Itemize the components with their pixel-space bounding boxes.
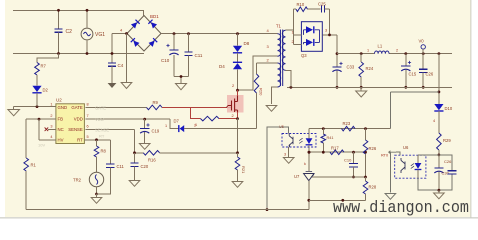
wire U5 collector to bottom rail [267, 127, 289, 210]
wire R17 row [309, 151, 366, 153]
svg-text:VDD: VDD [95, 117, 104, 122]
wire primary bottom rail [26, 209, 309, 211]
resistor R24 [360, 54, 362, 62]
svg-text:VG1: VG1 [95, 32, 105, 38]
resistor R10 snubber [294, 8, 297, 10]
optocoupler U6 LED [415, 163, 422, 169]
svg-text:R23: R23 [343, 121, 351, 126]
wire U5 LED to R23 row [308, 129, 310, 134]
svg-text:VDD: VDD [74, 117, 83, 122]
capacitor C20 [134, 153, 136, 163]
svg-text:U2: U2 [56, 98, 62, 103]
capacitor C25 snubber [322, 6, 325, 13]
wire sense drop to divider [389, 92, 391, 129]
svg-text:U7: U7 [294, 174, 300, 179]
MOSFET Q2 highlight [227, 95, 244, 113]
wire bridge left node down to ground [126, 34, 128, 83]
ground under U6 left [385, 194, 396, 200]
svg-text:SENSE: SENSE [95, 127, 109, 132]
capacitor C11 bulk [188, 34, 190, 52]
wire output row after L1 [389, 53, 452, 55]
svg-text:C15: C15 [409, 72, 417, 77]
resistor gate pulldown [201, 116, 220, 121]
svg-text:5: 5 [87, 135, 89, 139]
resistor R41 [321, 134, 326, 143]
capacitor C15 [405, 54, 407, 66]
capacitor C10 comp [353, 152, 355, 163]
resistor R17 [330, 150, 344, 155]
wire current sense row [135, 152, 144, 154]
svg-text:GATE: GATE [95, 105, 106, 110]
svg-text:Q3: Q3 [301, 53, 307, 58]
svg-text:RT0: RT0 [381, 154, 388, 158]
svg-text:C33: C33 [347, 65, 355, 70]
wire rectifier output [322, 34, 337, 36]
wire RT pin row [84, 139, 110, 141]
wire output row [337, 53, 375, 55]
wire GND pin row [14, 106, 56, 108]
wire snubber left to secondary top [293, 9, 295, 44]
svg-text:C11: C11 [195, 53, 203, 58]
capacitor C10 bulk [173, 34, 175, 50]
wire top AC rail [13, 10, 144, 15]
resistor R21 [235, 157, 240, 170]
svg-text:C10: C10 [344, 158, 352, 163]
optocoupler U5 LED [306, 138, 313, 144]
svg-text:R20: R20 [259, 88, 264, 96]
svg-text:D8: D8 [244, 41, 250, 46]
svg-text:C26: C26 [444, 159, 452, 164]
svg-text:C10: C10 [161, 58, 170, 63]
svg-text:GND: GND [58, 105, 68, 110]
svg-text:TR2: TR2 [73, 178, 82, 183]
svg-text:2: 2 [292, 40, 294, 44]
capacitor C19 [144, 119, 146, 128]
transformer T1 primary winding [278, 34, 281, 57]
wire VDD to D7 [170, 119, 179, 129]
svg-text:3: 3 [325, 29, 327, 33]
wire SENSE drop [134, 129, 136, 153]
diode D2 [32, 86, 41, 92]
ground under C4 [111, 80, 113, 84]
ground under aux winding [266, 106, 277, 112]
wire bridge left node to rail and C4 [112, 33, 127, 35]
svg-text:2: 2 [194, 124, 196, 128]
ground under C30 [438, 190, 440, 193]
resistor R29 [437, 133, 442, 150]
svg-text:R16: R16 [148, 158, 156, 163]
wire TL431 cathode [308, 147, 310, 172]
optocoupler U5 light arrows [299, 138, 302, 143]
ground under C20 [129, 181, 140, 187]
wire output sense column [438, 54, 440, 104]
transformer T1 aux winding [278, 63, 281, 87]
optocoupler U5 transistor [289, 134, 293, 148]
svg-text:1: 1 [367, 49, 369, 53]
optocoupler U5 dashed box [282, 134, 316, 148]
svg-text:R28: R28 [369, 185, 377, 190]
svg-text:R24: R24 [366, 66, 374, 71]
svg-text:R10: R10 [297, 2, 305, 7]
no-connect X on pin 3 [48, 128, 56, 130]
diode D4 clamp [237, 53, 239, 62]
ground under C10 C11 [176, 84, 187, 90]
optocoupler U6 transistor [401, 158, 405, 173]
resistor R7 [37, 54, 59, 63]
ground under U5 [283, 158, 294, 164]
svg-text:D10: D10 [445, 106, 453, 111]
svg-text:R26: R26 [369, 146, 377, 151]
capacitor C28 [448, 171, 457, 174]
svg-text:k: k [304, 162, 306, 166]
wire U5 emitter to ground [288, 147, 290, 158]
bridge rectifier BD1 [127, 16, 161, 52]
resistor R20 [256, 63, 258, 74]
optocoupler U6 dashed box [395, 155, 426, 178]
svg-text:4: 4 [433, 119, 435, 123]
capacitor C2 [58, 10, 60, 28]
svg-text:U6: U6 [403, 145, 409, 150]
dual diode Q3 box [301, 22, 322, 52]
terminal V0 [421, 45, 425, 49]
wire TL431 ref row [311, 176, 365, 178]
svg-text:C25: C25 [318, 2, 326, 7]
ground under TR2 [96, 194, 98, 198]
ground under R21 [232, 182, 243, 188]
wire bottom feedback row [309, 199, 366, 201]
wire secondary bottom to bus [286, 70, 291, 87]
resistor R9 [147, 105, 163, 110]
diode D10 [434, 104, 443, 110]
inductor L1 [375, 51, 390, 54]
svg-text:R21: R21 [241, 166, 246, 174]
thermistor TR2 [89, 172, 103, 186]
svg-text:L1: L1 [378, 44, 383, 49]
svg-text:NC: NC [58, 127, 64, 132]
svg-text:4: 4 [50, 135, 52, 139]
svg-text:10V: 10V [38, 143, 45, 148]
svg-text:D7: D7 [174, 119, 180, 124]
svg-text:SENSE: SENSE [68, 127, 83, 132]
svg-text:R8: R8 [101, 149, 107, 154]
svg-text:R17: R17 [331, 146, 339, 151]
capacitor C30 [434, 167, 443, 169]
AC source VG1 [86, 10, 88, 27]
svg-text:7: 7 [87, 114, 89, 118]
svg-text:3: 3 [284, 153, 286, 157]
svg-text:C19: C19 [152, 129, 160, 134]
wire sense row [390, 91, 439, 93]
svg-text:C26: C26 [426, 72, 434, 77]
resistor R16 [143, 151, 159, 156]
wire U6 loop rectangle [418, 155, 452, 170]
svg-text:C20: C20 [141, 164, 149, 169]
transformer T1 secondary winding [282, 30, 285, 70]
diode D8 clamp [237, 34, 239, 46]
svg-text:T1: T1 [276, 24, 282, 29]
capacitor C26 output [422, 54, 424, 69]
svg-text:R29: R29 [443, 138, 451, 143]
ground secondary [360, 87, 362, 91]
wire U6 left to ground [389, 152, 391, 192]
wire main DC bus after bridge [161, 33, 278, 35]
wire FB to HV link [38, 119, 40, 140]
resistor R8 [96, 140, 98, 146]
svg-text:R7: R7 [41, 64, 47, 69]
wire FB pin row [26, 118, 56, 120]
svg-text:HV: HV [58, 137, 64, 142]
capacitor C4 [108, 63, 116, 66]
svg-text:R9: R9 [153, 100, 159, 105]
wire drain source red [237, 90, 239, 96]
svg-text:RT: RT [99, 134, 105, 139]
svg-text:BD1: BD1 [150, 14, 159, 19]
ground under C19 [139, 144, 150, 150]
wire source to R21 [237, 119, 239, 153]
optocoupler U6 light arrows [411, 164, 414, 169]
svg-text:2: 2 [396, 49, 398, 53]
wire bottom AC rail [13, 53, 144, 55]
resistor R1 [25, 119, 27, 158]
svg-text:www.diangon.com: www.diangon.com [333, 198, 469, 217]
wire SENSE pin row [85, 128, 134, 130]
wire drain node to transformer primary bottom [238, 56, 278, 90]
wire caps common to ground [174, 76, 189, 78]
wire output node vertical [336, 35, 338, 66]
svg-text:R1: R1 [31, 163, 37, 168]
svg-text:1: 1 [50, 103, 52, 107]
wire TL431 anode [308, 181, 310, 210]
svg-text:1: 1 [165, 124, 167, 128]
resistor R26 [365, 129, 367, 140]
svg-text:D4: D4 [219, 64, 225, 69]
TL431 U7 [304, 174, 314, 181]
svg-text:6: 6 [87, 124, 89, 128]
wire pulldown to source red [219, 118, 238, 120]
svg-text:C11: C11 [117, 164, 125, 169]
wire gate to MOSFET red [162, 106, 232, 108]
svg-text:1: 1 [292, 31, 294, 35]
wire D7 to aux node [184, 128, 256, 130]
wire aux winding bottom to ground [272, 87, 278, 104]
svg-text:2: 2 [50, 114, 52, 118]
resistor R23 [342, 126, 356, 131]
diode Q3b [306, 39, 313, 46]
svg-text:GATE: GATE [71, 105, 83, 110]
capacitor C11 timing [109, 140, 111, 164]
svg-text:C4: C4 [118, 63, 124, 68]
wire aux winding top to R20 [257, 62, 278, 64]
transformer T1 core [280, 30, 282, 87]
svg-text:FB: FB [58, 117, 64, 122]
diode D7 [180, 125, 185, 132]
svg-text:RT: RT [77, 137, 83, 142]
wire secondary ground bus [287, 86, 452, 88]
svg-text:V0: V0 [419, 39, 425, 44]
IC U2 body [56, 104, 85, 144]
wire VDD pin row [85, 118, 170, 120]
capacitor C33 [332, 66, 341, 68]
wire HV pin row [39, 139, 56, 141]
svg-text:R41: R41 [327, 136, 334, 140]
ground at IC GND [13, 107, 15, 110]
MOSFET Q2 [232, 95, 238, 113]
svg-text:D2: D2 [43, 88, 49, 93]
svg-text:C2: C2 [66, 29, 73, 35]
wire R23 row [309, 128, 390, 130]
wire gate pulldown branch red [191, 107, 201, 118]
ground at bridge AC node [121, 83, 132, 89]
svg-text:8: 8 [87, 103, 89, 107]
resistor R28 [365, 177, 367, 181]
wire GATE pin row [85, 106, 146, 108]
svg-text:3: 3 [50, 124, 52, 128]
wire R16 to source node [160, 152, 238, 154]
diode Q3a [306, 26, 313, 33]
